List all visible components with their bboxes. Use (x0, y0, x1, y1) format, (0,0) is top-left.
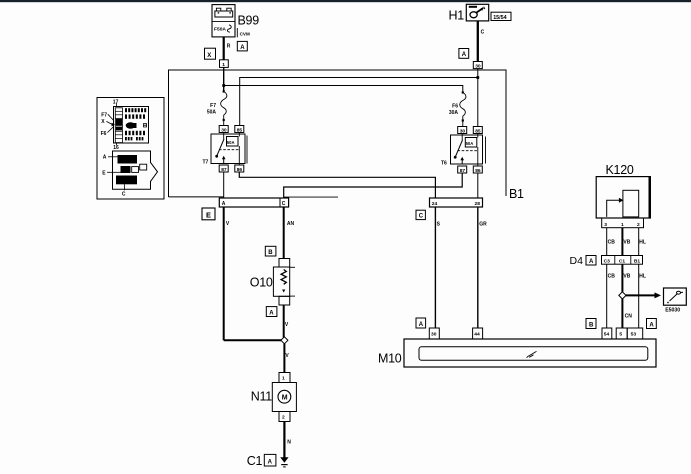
svg-text:B1: B1 (634, 258, 641, 264)
svg-text:85: 85 (475, 128, 481, 134)
wire CB below D4 (606, 264, 608, 328)
connector A (M10 left) (416, 318, 426, 328)
svg-text:C: C (481, 29, 485, 35)
svg-text:1: 1 (222, 62, 225, 68)
wire V horizontal (224, 339, 282, 341)
svg-text:C1: C1 (619, 258, 626, 264)
wire R battery drop (223, 37, 225, 60)
svg-text:17: 17 (113, 99, 119, 105)
svg-text:30: 30 (475, 63, 481, 69)
svg-text:F6: F6 (452, 104, 458, 110)
svg-text:54: 54 (604, 332, 610, 338)
svg-text:M10: M10 (378, 352, 402, 366)
connector A (C1) (264, 454, 276, 466)
svg-text:D4: D4 (570, 255, 584, 267)
svg-text:A: A (462, 52, 467, 58)
arrow to E5030 (626, 294, 656, 296)
svg-text:A: A (103, 154, 107, 160)
svg-text:K120: K120 (606, 163, 634, 177)
svg-text:15/54: 15/54 (493, 15, 507, 21)
svg-text:A: A (419, 322, 424, 328)
svg-text:VB: VB (623, 239, 630, 245)
label 15/54 (491, 12, 511, 20)
svg-text:GR: GR (479, 222, 487, 228)
connector bar E (A/C) (219, 198, 288, 207)
connector A (D4) (586, 256, 596, 266)
bus wire 30 (top) (169, 70, 507, 197)
svg-text:50A: 50A (207, 110, 217, 116)
svg-text:30: 30 (431, 332, 437, 338)
svg-text:A: A (649, 322, 654, 328)
svg-text:44: 44 (474, 332, 480, 338)
wire T7 86 to pin 24 (239, 172, 435, 198)
wire stub right of C (284, 196, 338, 198)
svg-text:R: R (227, 43, 231, 49)
key icon (469, 6, 477, 8)
K120 wiper arrow (619, 198, 624, 203)
junction diamond V (281, 337, 288, 344)
connector D4 (602, 256, 643, 265)
wire AN from bar C (283, 207, 285, 259)
connector C label (416, 210, 425, 219)
svg-text:A: A (268, 459, 273, 465)
connector A (battery) (237, 41, 247, 51)
svg-text:F7: F7 (101, 112, 107, 118)
svg-text:C3: C3 (604, 258, 611, 264)
wire from bus to bar A (169, 196, 224, 198)
svg-text:28: 28 (475, 201, 481, 207)
svg-text:2: 2 (282, 415, 285, 421)
svg-text:M: M (282, 395, 288, 402)
wire V to N11 (283, 344, 285, 373)
svg-text:E: E (206, 210, 211, 219)
pin 1 (battery) (220, 60, 229, 68)
wire T6 86 to pin 28 (477, 173, 479, 198)
wire S to M10 pin 30 (434, 207, 436, 328)
wire N to ground (283, 422, 285, 458)
svg-text:O10: O10 (250, 276, 273, 290)
connector A (O10) (266, 307, 277, 317)
svg-text:30: 30 (460, 128, 466, 134)
wire T6 87 to bar C (284, 173, 463, 198)
svg-text:CN: CN (625, 313, 633, 319)
bus wire 15/54 (240, 78, 478, 126)
wire H1 down to T6 pin 85 (477, 69, 479, 127)
svg-text:1: 1 (282, 375, 285, 381)
body computer M10 (404, 328, 656, 367)
wire HL below D4 (638, 264, 640, 328)
fusebox connector drawing (113, 151, 158, 189)
fusebox illustration (97, 98, 164, 200)
reference E5030 (664, 288, 687, 305)
svg-text:T6: T6 (441, 161, 447, 167)
connector E label (202, 208, 215, 220)
svg-text:HL: HL (639, 273, 646, 279)
relay T6 contact arrow (461, 159, 463, 164)
svg-text:E5030: E5030 (665, 308, 680, 314)
wire CN below diamond (621, 299, 623, 328)
svg-text:VB: VB (623, 273, 630, 279)
svg-text:86: 86 (475, 168, 481, 174)
wire VB (K120 pin1) (621, 228, 623, 256)
pump motor N11 (272, 373, 296, 422)
svg-text:CB: CB (608, 239, 616, 245)
connector A (H1) (459, 49, 469, 59)
wire GR to M10 pin 44 (477, 207, 479, 328)
connector B (O10) (265, 246, 276, 256)
CVM marker (236, 28, 238, 37)
wire C from H1 (477, 21, 479, 62)
fuse F7 50A (221, 92, 227, 126)
connector B (M10 right) (586, 319, 596, 329)
battery B99 (212, 5, 235, 37)
pencil mark in M10 (527, 351, 537, 357)
connector A (M10 far right) (647, 319, 657, 329)
svg-text:1: 1 (621, 222, 624, 228)
svg-text:A: A (589, 259, 594, 265)
svg-text:X: X (207, 53, 211, 59)
wire HL (K120 pin2) (638, 228, 640, 256)
wire VB below D4 (621, 264, 623, 292)
connector bar 24/28 (430, 198, 483, 207)
svg-text:3: 3 (604, 222, 607, 228)
pin 30 (H1) (473, 62, 482, 69)
svg-text:C: C (122, 191, 126, 197)
junction diamond VB (619, 292, 626, 299)
ground C1 (280, 457, 288, 462)
svg-text:N: N (287, 440, 291, 446)
relay T6 (451, 127, 486, 174)
battery terminal dots (218, 12, 220, 13)
svg-text:B1: B1 (509, 187, 524, 201)
wire V below O10 (283, 305, 285, 337)
wire T7 87 to bar A (223, 172, 225, 198)
title bar top edge (0, 0, 691, 2)
fusebox rows of elements (125, 108, 146, 119)
svg-text:H1: H1 (449, 9, 465, 23)
svg-text:50A: 50A (466, 141, 474, 146)
relay T7 contact arrow (223, 158, 225, 164)
svg-text:B99: B99 (238, 14, 260, 28)
svg-text:C1: C1 (247, 454, 263, 468)
bus wire battery feed (224, 86, 463, 93)
svg-text:B: B (268, 250, 273, 256)
svg-text:53: 53 (631, 332, 637, 338)
svg-text:16: 16 (113, 145, 119, 151)
svg-text:A: A (222, 201, 226, 207)
svg-text:5: 5 (619, 332, 622, 338)
svg-text:N11: N11 (251, 389, 272, 403)
svg-text:30A: 30A (449, 110, 459, 116)
svg-text:HL: HL (639, 239, 646, 245)
svg-text:C: C (419, 214, 424, 220)
svg-text:F6: F6 (101, 131, 107, 137)
wire CB (K120 pin3) (606, 228, 608, 256)
svg-text:CB: CB (608, 273, 616, 279)
relay T7 (211, 126, 247, 173)
svg-text:C: C (282, 201, 286, 207)
svg-text:A: A (269, 310, 274, 316)
svg-text:F7: F7 (210, 103, 216, 109)
svg-text:2: 2 (637, 222, 640, 228)
connector X (205, 48, 216, 59)
resistor O10 (273, 259, 295, 306)
fuse F6 30A (460, 93, 466, 127)
svg-text:24: 24 (432, 201, 438, 207)
svg-text:50A: 50A (227, 140, 235, 145)
junction dot 15/54 (476, 76, 479, 79)
fuse column cells (115, 111, 122, 138)
junction dot battery feed (222, 84, 225, 87)
svg-text:87: 87 (460, 168, 466, 174)
svg-text:30: 30 (221, 127, 227, 133)
svg-text:F50A: F50A (214, 27, 226, 33)
svg-text:86: 86 (237, 167, 243, 173)
svg-text:B: B (589, 322, 594, 328)
svg-text:CVM: CVM (240, 32, 250, 37)
svg-text:T7: T7 (203, 160, 209, 166)
svg-text:A: A (240, 45, 245, 51)
wire V from bar A (223, 207, 225, 340)
svg-text:87: 87 (221, 167, 227, 173)
svg-text:AN: AN (287, 221, 295, 227)
svg-text:85: 85 (237, 127, 243, 133)
battery feed wire (223, 67, 225, 91)
